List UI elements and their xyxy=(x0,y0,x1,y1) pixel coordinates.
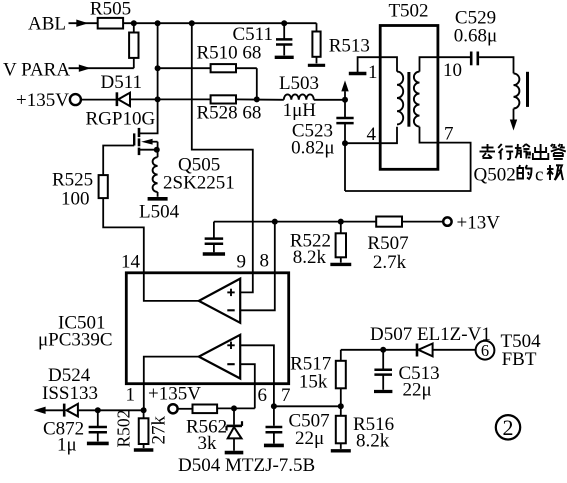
wire R510 to R528 xyxy=(256,68,258,99)
svg-text:9: 9 xyxy=(237,252,247,273)
pin label 10 xyxy=(443,60,462,81)
resistor R525 xyxy=(99,175,108,198)
pin label 1 xyxy=(126,385,136,406)
capacitor C507 xyxy=(264,427,284,445)
junction ABL-x157 xyxy=(155,20,161,26)
wire C529 to coil xyxy=(479,57,513,73)
svg-text:7: 7 xyxy=(444,124,454,145)
resistor R562 xyxy=(193,405,218,414)
pin label 7 xyxy=(444,124,454,145)
svg-text:15k: 15k xyxy=(299,372,328,393)
svg-text:+13V: +13V xyxy=(457,213,501,234)
capacitor C872 label xyxy=(43,419,84,440)
resistor R528 label xyxy=(197,103,262,124)
resistor R516 label xyxy=(353,414,394,435)
resistor R507 label xyxy=(367,233,408,254)
diode D524 label xyxy=(48,365,91,386)
svg-text:R505: R505 xyxy=(90,0,131,20)
resistor R502 value xyxy=(149,416,170,445)
svg-text:c: c xyxy=(535,165,543,186)
wire x157 vertical xyxy=(157,23,159,99)
wire output arrow left xyxy=(34,407,65,414)
svg-text:R507: R507 xyxy=(367,233,408,254)
inductor L504 label xyxy=(139,202,180,223)
svg-text:D507 EL1Z-V1: D507 EL1Z-V1 xyxy=(370,324,491,345)
resistor R507 value xyxy=(373,252,407,273)
resistor R507 xyxy=(376,217,402,227)
wire U2 plus to pin7 xyxy=(240,345,274,426)
capacitor C513 xyxy=(374,350,392,392)
svg-text:Q502: Q502 xyxy=(474,165,516,186)
wire R528 to L503 xyxy=(236,98,284,100)
IC501 label xyxy=(58,313,106,334)
wire coil to arrow xyxy=(513,109,515,120)
capacitor C523 value xyxy=(291,138,334,159)
wire rail to R513 xyxy=(316,23,318,31)
pin label 6 xyxy=(258,385,268,406)
svg-text:3k: 3k xyxy=(198,433,218,454)
svg-text:1: 1 xyxy=(126,385,136,406)
terminal circled 6 FBT xyxy=(476,341,495,360)
transformer T502 box xyxy=(380,26,438,170)
junction pin1-R502 xyxy=(141,407,147,413)
resistor R505 xyxy=(98,18,123,29)
junction 13V-pin8 xyxy=(272,219,278,225)
wire ABL to pin9 xyxy=(192,23,253,292)
svg-text:V PARA: V PARA xyxy=(3,60,70,81)
svg-text:R525: R525 xyxy=(52,170,93,191)
resistor R502 label xyxy=(114,410,134,448)
diode D507 EL1Z-V1 xyxy=(417,344,433,357)
wire 135V to R562 xyxy=(178,408,193,410)
diode D511 RGP10G xyxy=(117,92,130,106)
svg-text:8.2k: 8.2k xyxy=(293,247,327,268)
zener D504 label xyxy=(178,455,315,476)
resistor R528 xyxy=(211,95,236,103)
junction C872 xyxy=(95,407,101,413)
annotation text1 (to line output) xyxy=(480,144,566,160)
transistor Q505 channel xyxy=(138,128,141,155)
terminal +13V xyxy=(443,217,451,225)
node +13V label xyxy=(457,213,501,234)
junction node L503-C523 xyxy=(342,97,348,103)
transformer T502 primary winding xyxy=(397,72,403,125)
junction R510-x157 xyxy=(155,65,161,71)
junction ABL-C511 xyxy=(281,20,287,26)
resistor R513 xyxy=(308,32,325,66)
junction ABL-R-vpara xyxy=(131,20,137,26)
capacitor C511 label xyxy=(233,24,273,45)
terminal +135V bottom xyxy=(168,404,177,413)
wire pin4 lead xyxy=(345,127,397,144)
diode D507 label xyxy=(370,324,491,345)
resistor R513 label xyxy=(329,36,370,57)
capacitor C511 xyxy=(275,23,294,57)
wire R562 to pin6 xyxy=(217,407,255,409)
inductor L504 xyxy=(148,157,168,199)
resistor (V PARA pull) xyxy=(129,23,138,68)
wire source down xyxy=(157,150,159,158)
svg-text:+135V: +135V xyxy=(16,90,69,111)
diode D524 part label xyxy=(42,383,98,404)
svg-text:FBT: FBT xyxy=(502,349,537,370)
transistor Q505 source xyxy=(140,149,158,151)
wire ABL input with arrow xyxy=(69,20,98,27)
svg-text:L504: L504 xyxy=(139,202,180,223)
resistor R516 value xyxy=(356,431,390,452)
capacitor C523 label xyxy=(292,121,333,142)
arrow to Q502 collector xyxy=(510,120,517,131)
svg-text:0.82μ: 0.82μ xyxy=(291,138,334,159)
capacitor C507 value xyxy=(295,428,324,449)
wire D507 to FBT pin xyxy=(433,349,476,351)
capacitor C529 label xyxy=(455,8,496,29)
resistor R517 xyxy=(336,350,346,407)
capacitor C872 xyxy=(87,410,109,443)
resistor R522 value xyxy=(293,247,327,268)
resistor R517 label xyxy=(290,354,331,375)
capacitor at +13V rail xyxy=(203,222,225,254)
wire D511 to R528 row xyxy=(130,98,211,100)
wire U2 minus to pin6 xyxy=(240,364,255,408)
junction source-L504 xyxy=(154,147,160,153)
capacitor C523 xyxy=(336,100,353,191)
svg-text:RGP10G: RGP10G xyxy=(86,109,156,130)
wire pin7 loop xyxy=(345,127,471,191)
zener D504 xyxy=(225,408,244,452)
transformer T504 FBT label xyxy=(502,349,537,370)
junction C523-pin4 xyxy=(342,140,348,146)
wire +13V rail xyxy=(214,221,443,223)
transformer T502 core xyxy=(407,72,410,127)
diode D511 part label xyxy=(86,109,156,130)
pin 1 bar of T502 xyxy=(349,72,367,75)
junction 13V-R522 xyxy=(338,219,344,225)
pin label 14 xyxy=(121,252,141,273)
IC501 part label xyxy=(38,330,113,351)
output inductor xyxy=(514,73,520,108)
resistor R525 label xyxy=(52,170,93,191)
wire ABL rail xyxy=(123,22,316,24)
IC501 box xyxy=(126,273,288,384)
svg-text:0.68μ: 0.68μ xyxy=(454,26,497,47)
resistor R502 xyxy=(134,410,154,450)
resistor R522 label xyxy=(290,231,331,252)
inductor L503 value xyxy=(283,100,317,121)
wire R525 to pin14 to U1 output xyxy=(103,198,199,301)
svg-text:+135V: +135V xyxy=(148,384,201,405)
svg-text:D504 MTZJ-7.5B: D504 MTZJ-7.5B xyxy=(178,455,315,476)
wire pin7 rail xyxy=(274,405,341,407)
transistor Q505 drain xyxy=(140,99,158,133)
wire 13V to pin8 xyxy=(240,222,275,311)
transformer T504 label xyxy=(501,331,542,352)
svg-text:1μH: 1μH xyxy=(283,100,317,121)
junction zener xyxy=(231,405,237,411)
node ABL input label xyxy=(28,14,66,35)
inductor L503 label xyxy=(279,73,319,94)
transformer T502 label xyxy=(388,1,428,22)
junction R528-R510 xyxy=(254,96,260,102)
wire arrow up to T502 pin1 xyxy=(341,80,348,99)
svg-text:R502: R502 xyxy=(114,410,134,448)
resistor R510 label xyxy=(197,43,262,64)
svg-text:μPC339C: μPC339C xyxy=(38,330,113,351)
svg-text:14: 14 xyxy=(121,252,141,273)
transistor Q505 body arrow xyxy=(141,139,157,150)
svg-text:8: 8 xyxy=(260,251,270,272)
pin label 9 xyxy=(237,252,247,273)
pin label 1 xyxy=(368,62,378,83)
transistor Q505 label xyxy=(178,155,220,176)
svg-text:R528 68: R528 68 xyxy=(197,103,262,124)
wire V PARA with arrow xyxy=(69,65,134,72)
svg-text:ISS133: ISS133 xyxy=(42,383,98,404)
resistor R562 label xyxy=(186,417,227,438)
wire U2 output to pin1 xyxy=(144,357,199,411)
resistor R510 xyxy=(158,64,257,72)
svg-text:2SK2251: 2SK2251 xyxy=(163,173,235,194)
svg-text:2.7k: 2.7k xyxy=(373,252,407,273)
svg-text:27k: 27k xyxy=(149,416,170,445)
svg-text:10: 10 xyxy=(443,60,462,81)
svg-text:ABL: ABL xyxy=(28,14,66,35)
capacitor C513 label xyxy=(399,363,440,384)
svg-text:D511: D511 xyxy=(101,72,143,93)
annotation text2 (Q502 c pole) xyxy=(474,165,564,186)
resistor R522 xyxy=(330,222,351,265)
svg-text:7: 7 xyxy=(281,385,291,406)
svg-text:L503: L503 xyxy=(279,73,319,94)
comparator U2 lower xyxy=(199,335,240,379)
resistor R505 label xyxy=(90,0,131,20)
svg-text:C511: C511 xyxy=(233,24,273,45)
resistor R525 value xyxy=(61,189,90,210)
svg-text:R513: R513 xyxy=(329,36,370,57)
junction R517-R516 xyxy=(338,403,344,409)
diode D511 label xyxy=(101,72,143,93)
wire pin10 to C529 xyxy=(420,57,471,71)
transistor Q505 part label xyxy=(163,173,235,194)
capacitor C513 value xyxy=(403,380,432,401)
wire pin1 lead xyxy=(358,57,397,72)
transistor Q505 gate xyxy=(103,133,134,175)
node +135V bottom label xyxy=(148,384,201,405)
resistor R516 xyxy=(331,406,351,451)
capacitor C529 value xyxy=(454,26,497,47)
page marker circled 2 xyxy=(496,415,520,440)
node +135V label xyxy=(16,90,69,111)
output inductor core xyxy=(526,72,529,107)
capacitor C507 label xyxy=(289,411,330,432)
svg-text:T502: T502 xyxy=(388,1,428,22)
junction ABL-x192 xyxy=(189,20,195,26)
pin label 4 xyxy=(367,124,377,145)
svg-text:4: 4 xyxy=(367,124,377,145)
svg-text:6: 6 xyxy=(481,341,489,360)
capacitor C529 xyxy=(471,52,478,66)
svg-text:22μ: 22μ xyxy=(403,380,432,401)
capacitor C872 value xyxy=(57,435,77,456)
resistor R562 value xyxy=(198,433,218,454)
junction 135-x157 xyxy=(155,96,161,102)
comparator U1 upper xyxy=(199,279,240,323)
junction C513 xyxy=(380,347,386,353)
resistor R517 value xyxy=(299,372,328,393)
svg-text:1μ: 1μ xyxy=(57,435,77,456)
inductor L503 1uH xyxy=(284,94,345,99)
transformer T502 secondary winding xyxy=(414,72,420,127)
svg-text:1: 1 xyxy=(368,62,378,83)
node V PARA label xyxy=(3,60,70,81)
diode D524 ISS133 xyxy=(64,404,78,417)
svg-text:8.2k: 8.2k xyxy=(356,431,390,452)
wire +135V to D511 xyxy=(82,99,116,101)
svg-text:100: 100 xyxy=(61,189,90,210)
wire R517 to D507 xyxy=(341,349,417,351)
svg-text:6: 6 xyxy=(258,385,268,406)
wire D524 to pin1 node xyxy=(78,409,144,411)
svg-text:2: 2 xyxy=(503,415,514,440)
pin label 7b xyxy=(281,385,291,406)
pin label 8 xyxy=(260,251,270,272)
svg-text:22μ: 22μ xyxy=(295,428,324,449)
terminal +135V xyxy=(70,94,81,105)
junction pin7-rail xyxy=(271,403,277,409)
svg-text:R510 68: R510 68 xyxy=(197,43,262,64)
